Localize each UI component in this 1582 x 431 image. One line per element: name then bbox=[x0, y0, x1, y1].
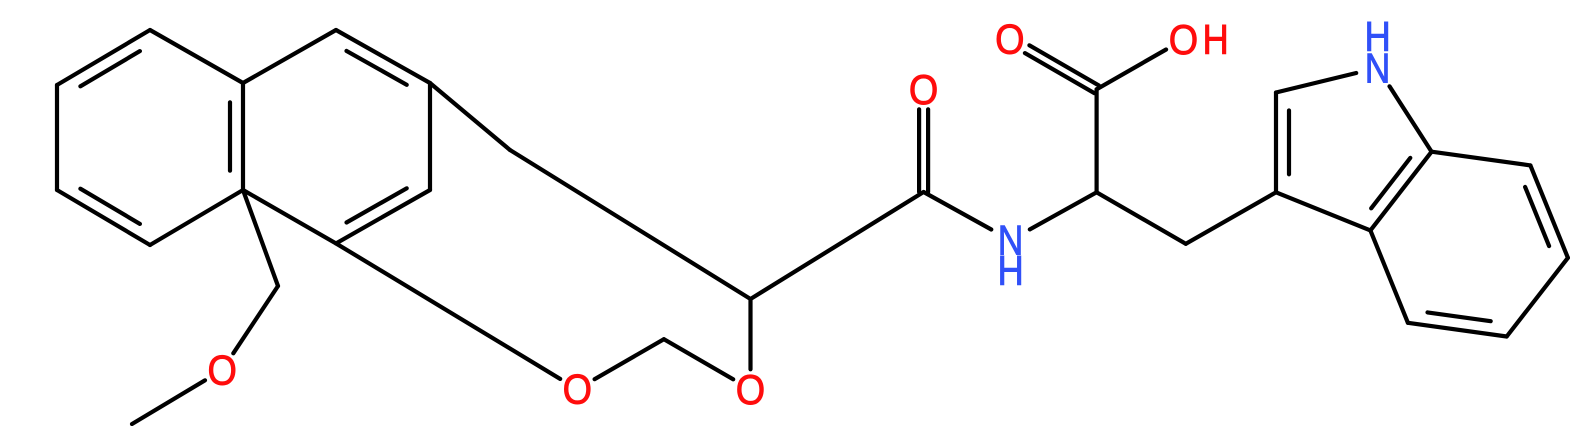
svg-text:O: O bbox=[909, 66, 938, 113]
bond C3-C2 bbox=[1274, 93, 1278, 193]
bond Cam-N1 bbox=[924, 192, 992, 230]
bond B2-BR bbox=[243, 190, 336, 243]
bond BR-B bbox=[150, 190, 243, 245]
svg-text:O: O bbox=[563, 366, 592, 413]
bond C2-N2 bbox=[1276, 73, 1356, 93]
bond BR-V1 bbox=[243, 190, 278, 286]
bond TL-T bbox=[57, 30, 150, 85]
bond TR-BR bbox=[241, 83, 245, 190]
bond aC-Cac bbox=[1094, 89, 1098, 192]
aromatic inner line C3-C2 bbox=[1287, 111, 1291, 175]
svg-text:H: H bbox=[1203, 16, 1229, 63]
bond BR2-B2 bbox=[336, 190, 430, 243]
double bond Cac=O5 line 2 bbox=[1025, 53, 1095, 93]
svg-text:O: O bbox=[995, 16, 1024, 63]
bond Ea-CH2b bbox=[510, 150, 751, 299]
bond N2-C7a bbox=[1390, 86, 1432, 151]
bond TR2-Ea bbox=[430, 83, 510, 150]
svg-text:O: O bbox=[208, 347, 237, 394]
aromatic inner line C7a-C3a bbox=[1371, 158, 1410, 208]
aromatic inner line C6-C7 bbox=[1525, 187, 1549, 246]
aromatic inner line C4-C5 bbox=[1428, 312, 1491, 321]
bond C7a-C3a bbox=[1370, 152, 1431, 231]
bond C4-C5 bbox=[1408, 323, 1507, 337]
bond CH2t-C3 bbox=[1186, 192, 1276, 244]
bond O1-Me bbox=[132, 380, 205, 424]
bond B2-O2 bbox=[336, 243, 560, 379]
bond T-TR bbox=[150, 30, 243, 83]
aromatic inner line TR-BR bbox=[228, 102, 232, 170]
bond O3-CH2b bbox=[748, 299, 752, 369]
bond C3a-C3 bbox=[1276, 192, 1370, 230]
bond TR-T2 bbox=[243, 30, 336, 83]
bond C5-C6 bbox=[1507, 258, 1568, 337]
bond CH2c-O3 bbox=[664, 339, 733, 379]
bond Cac-O6 bbox=[1097, 50, 1167, 90]
bond C3a-C4 bbox=[1370, 230, 1408, 322]
svg-text:O: O bbox=[1169, 16, 1198, 63]
bond O2-CH2c bbox=[595, 339, 664, 379]
svg-text:O: O bbox=[736, 366, 765, 413]
bond CH2b-Cam bbox=[751, 192, 924, 299]
aromatic inner line B-BL bbox=[80, 189, 139, 224]
double bond Cam=O4 line 1 bbox=[926, 109, 930, 192]
aromatic inner line BR2-B2 bbox=[347, 188, 407, 222]
svg-text:H: H bbox=[1364, 13, 1390, 60]
bond B-BL bbox=[57, 190, 150, 245]
aromatic inner line TL-T bbox=[80, 51, 139, 86]
bond N1-aC bbox=[1030, 192, 1097, 229]
double bond Cac=O5 line 1 bbox=[1029, 45, 1098, 85]
bond aC-CH2t bbox=[1097, 192, 1186, 244]
bond BL-TL bbox=[55, 85, 59, 190]
aromatic inner line T2-TR2 bbox=[347, 51, 407, 85]
double bond Cam=O4 line 2 bbox=[917, 109, 921, 192]
bond T2-TR2 bbox=[336, 30, 430, 83]
bond V1-O1 bbox=[233, 286, 278, 353]
svg-text:H: H bbox=[997, 247, 1023, 294]
bond C7-C7a bbox=[1432, 152, 1531, 166]
bond TR2-BR2 bbox=[428, 83, 432, 190]
bond C6-C7 bbox=[1530, 165, 1568, 257]
